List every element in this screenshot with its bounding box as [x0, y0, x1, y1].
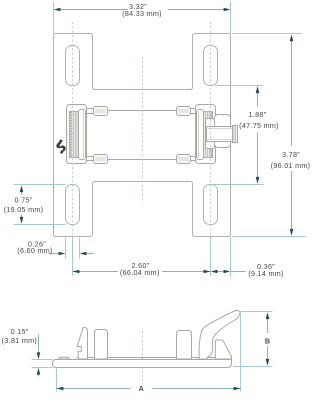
dim 0.36 arrow left: [211, 270, 218, 274]
side tab2: [177, 331, 192, 360]
mechanism rail top: [108, 110, 177, 112]
centerline left slots: [72, 22, 74, 237]
dim 0.26 ext left: [65, 238, 67, 259]
knob cap: [233, 126, 238, 143]
svg-text:B: B: [265, 336, 270, 345]
dim 3.32 ext right: [230, 2, 232, 34]
neck top-left: [87, 108, 95, 110]
dim A ext right: [240, 312, 242, 392]
dim A arrow right: [234, 387, 241, 391]
dim 2.60 arrow right: [204, 270, 211, 274]
svg-text:(96.01 mm): (96.01 mm): [271, 161, 311, 170]
side view centerline: [142, 331, 144, 381]
dim 3.32 line: [57, 9, 128, 11]
dim 0.15 ext bottom: [32, 367, 53, 369]
dim 0.75 ext top: [14, 184, 66, 186]
dim 2.60 ext left: [72, 237, 74, 276]
plate outline: [54, 34, 231, 237]
dim 2.60 line: [73, 271, 119, 273]
dim 0.26 leader left: [49, 253, 61, 255]
dim 3.78 arrow top: [290, 34, 294, 41]
dim 0.36 line: [217, 271, 225, 273]
slot bottom-left: [66, 185, 80, 225]
dim 3.78 ext bottom: [232, 236, 306, 238]
knob bar: [207, 127, 233, 142]
slot top-left: [66, 46, 80, 86]
right bracket: [196, 105, 216, 164]
knob boss: [206, 119, 215, 149]
dim 3.78 line: [291, 37, 293, 147]
side hook arm: [199, 310, 240, 359]
dim B ext top: [241, 311, 273, 313]
dim 0.36 ext right: [230, 238, 232, 278]
dim 0.15 leader: [38, 335, 40, 354]
svg-text:(66.04 mm): (66.04 mm): [120, 268, 160, 277]
dim B ext bottom: [233, 366, 273, 368]
svg-text:A: A: [139, 384, 144, 393]
clip glyph: [58, 140, 65, 154]
neck top-right: [190, 108, 196, 110]
dim 0.75 arrow bottom: [20, 217, 24, 224]
dim A arrow left: [57, 387, 64, 391]
dim 0.75 arrow top: [20, 185, 24, 192]
dim 0.36 leader: [231, 271, 246, 273]
dim 1.88 arrow top: [256, 86, 260, 93]
neck bottom-left: [87, 156, 95, 158]
tab bottom-right: [177, 155, 191, 164]
svg-text:(84.33 mm): (84.33 mm): [122, 9, 162, 18]
svg-text:(47.75 mm): (47.75 mm): [239, 121, 279, 130]
svg-text:(3.81 mm): (3.81 mm): [2, 336, 37, 345]
centerline right slots: [210, 22, 212, 237]
dim 3.78 ext top: [232, 33, 303, 35]
dim 0.26 ext right: [79, 238, 81, 259]
left bracket: [67, 105, 87, 164]
dim 0.75 ext bottom: [14, 224, 66, 226]
tab top-left: [94, 107, 108, 116]
slot bottom-right: [204, 185, 218, 225]
neck bottom-right: [190, 156, 196, 158]
dim A line: [57, 388, 131, 390]
side barb: [77, 327, 87, 359]
knob flange: [215, 115, 231, 148]
side tab1: [95, 330, 108, 360]
side bump: [59, 357, 69, 359]
dim 0.26 arrow right: [80, 252, 87, 256]
dim B line: [267, 315, 269, 334]
dim 0.75 line: [21, 188, 23, 195]
slot top-right: [204, 46, 218, 86]
svg-text:0.75”: 0.75”: [15, 196, 33, 205]
centerline middle: [142, 57, 144, 203]
dim 1.88 ext bottom: [211, 184, 264, 186]
dim 1.88 ext top: [216, 85, 264, 87]
svg-text:(6.60 mm): (6.60 mm): [17, 246, 52, 255]
dim 3.32 arrow left: [54, 8, 61, 12]
dim 0.26 arrow left: [59, 252, 66, 256]
tab bottom-left: [94, 155, 108, 164]
mechanism rail bottom: [108, 159, 177, 161]
dim B arrow top: [266, 312, 270, 319]
dim 3.78 arrow bottom: [290, 229, 294, 236]
side wedge: [215, 340, 231, 359]
dim 2.60 ext right: [210, 237, 212, 276]
svg-text:1.88”: 1.88”: [249, 110, 267, 119]
dim 2.60 arrow left: [73, 270, 80, 274]
dim A ext left: [56, 369, 58, 392]
dim 0.15 ext top: [32, 359, 53, 361]
tab top-right: [177, 107, 191, 116]
dim 0.36 arrow right: [224, 270, 231, 274]
dim 1.88 arrow bottom: [256, 177, 260, 184]
svg-text:0.15”: 0.15”: [11, 327, 29, 336]
dim 0.15 arrow up: [37, 368, 41, 375]
dim 0.15 tail bottom: [38, 374, 40, 377]
dim 3.32 arrow right: [224, 8, 231, 12]
dim B arrow bottom: [266, 359, 270, 366]
dim 1.88 line: [257, 89, 259, 107]
side lip strip: [77, 357, 226, 359]
dim 3.32 ext left: [53, 3, 55, 34]
dim 0.26 tail right: [86, 253, 94, 255]
side base bar: [53, 360, 232, 368]
svg-text:(9.14 mm): (9.14 mm): [248, 269, 283, 278]
svg-text:3.78”: 3.78”: [282, 150, 300, 159]
svg-text:(19.05 mm): (19.05 mm): [4, 205, 44, 214]
dim 0.15 arrow down: [37, 352, 41, 359]
